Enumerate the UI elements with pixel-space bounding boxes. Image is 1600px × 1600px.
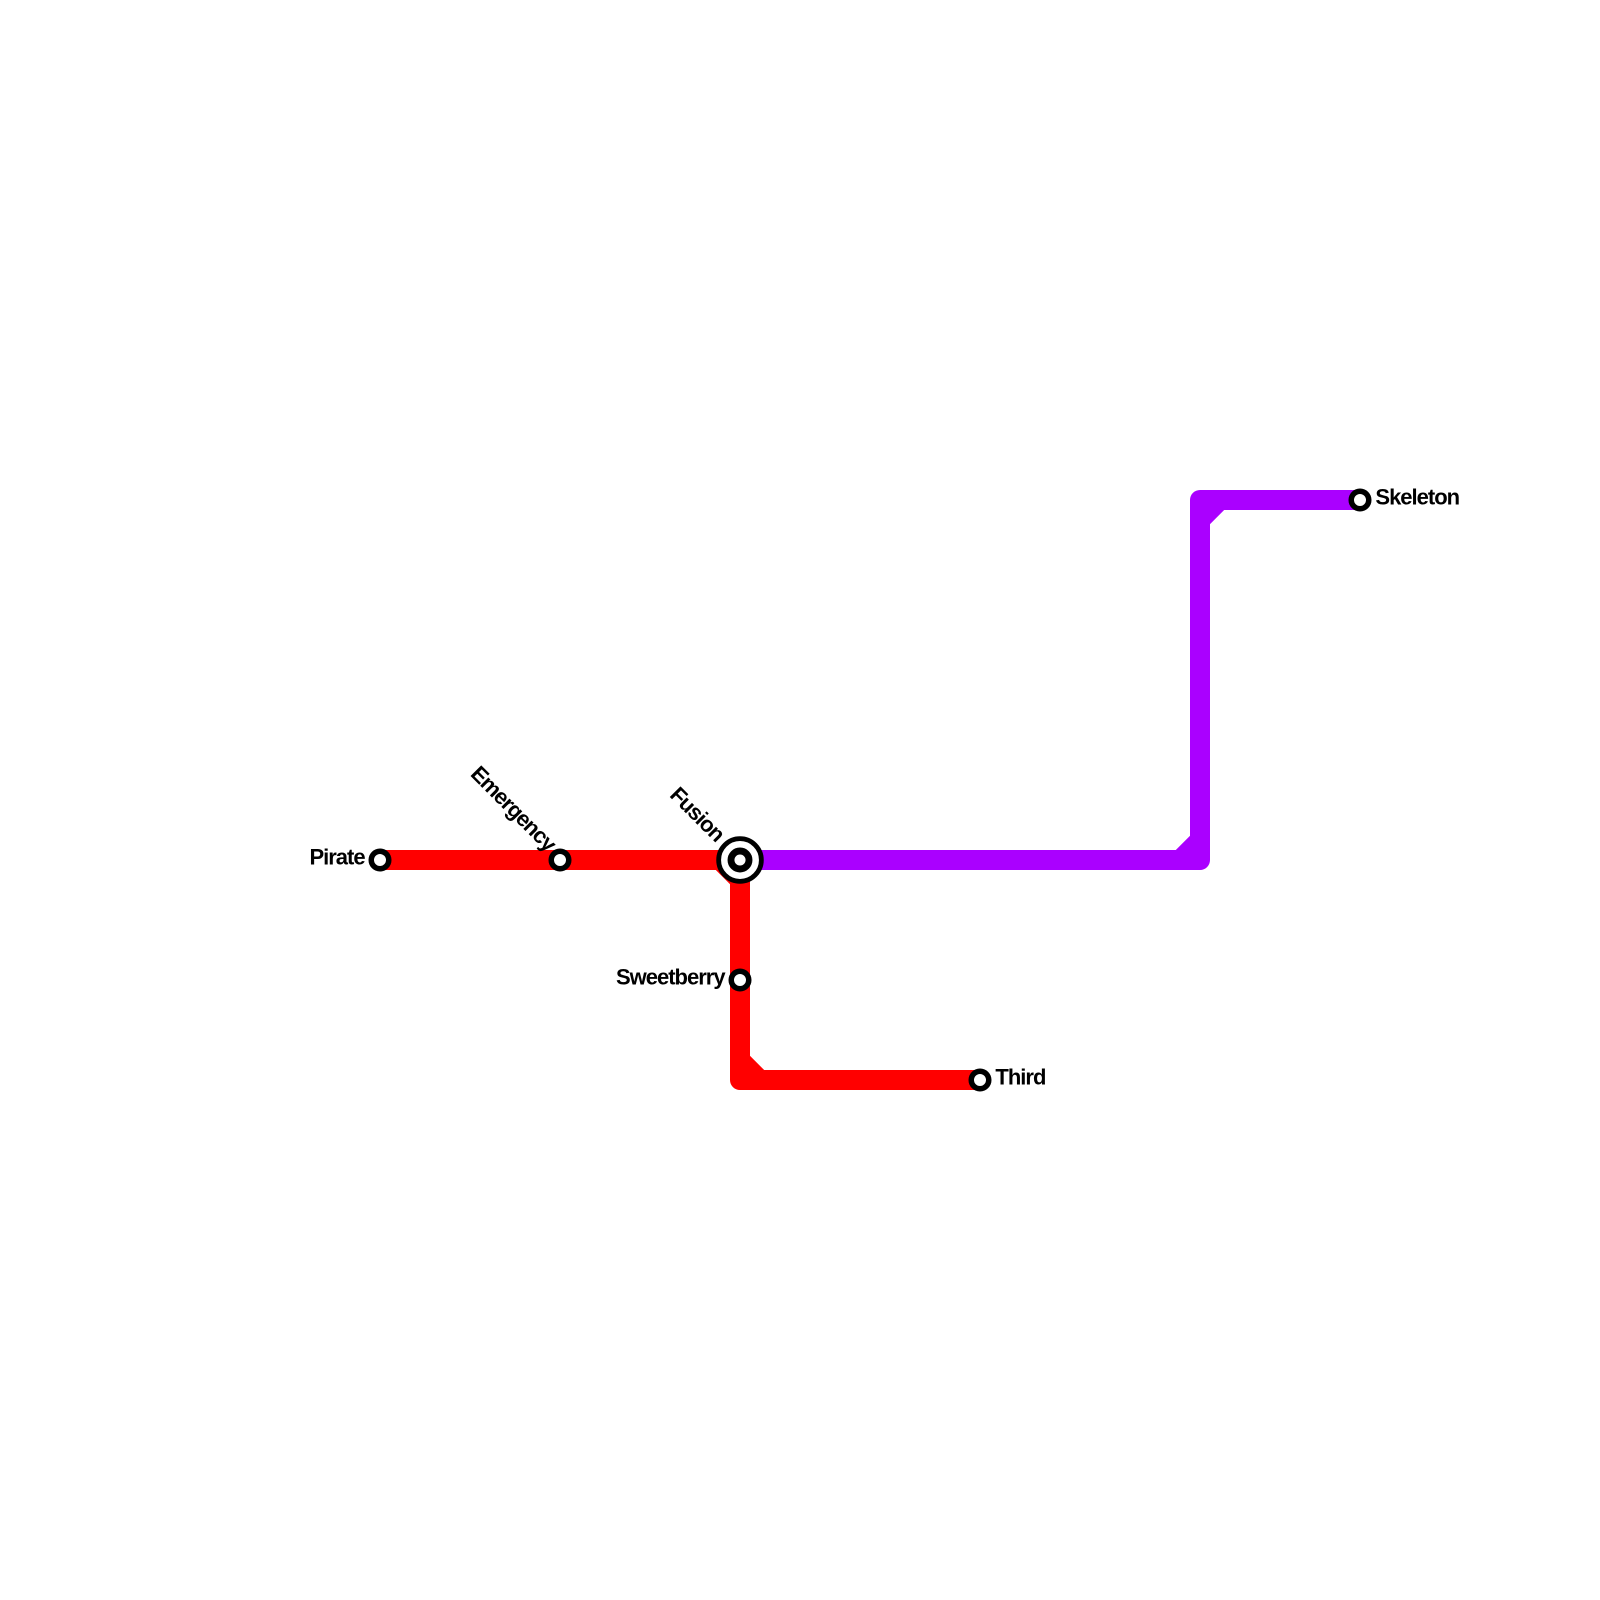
svg-text:Emergency: Emergency bbox=[466, 761, 562, 857]
svg-text:Skeleton: Skeleton bbox=[1375, 485, 1459, 510]
station Third bbox=[971, 1071, 989, 1089]
svg-text:Third: Third bbox=[995, 1065, 1045, 1090]
purple line Fusion-Skeleton (round-corner pass) bbox=[740, 500, 1360, 860]
svg-text:Fusion: Fusion bbox=[665, 782, 730, 847]
station Pirate bbox=[371, 851, 389, 869]
station Emergency bbox=[551, 851, 569, 869]
red line Pirate-Fusion-Sweetberry-Third (45-cut pass) bbox=[380, 860, 980, 1080]
interchange Fusion outer ring bbox=[719, 839, 762, 882]
purple line Fusion-Skeleton (45-cut pass) bbox=[740, 500, 1360, 860]
svg-text:Sweetberry: Sweetberry bbox=[616, 965, 726, 990]
svg-text:Pirate: Pirate bbox=[309, 845, 365, 870]
station Skeleton bbox=[1351, 491, 1369, 509]
station Sweetberry bbox=[731, 971, 749, 989]
interchange Fusion inner ring bbox=[731, 851, 749, 869]
red line Pirate-Fusion-Sweetberry-Third (round-corner pass) bbox=[380, 860, 980, 1080]
